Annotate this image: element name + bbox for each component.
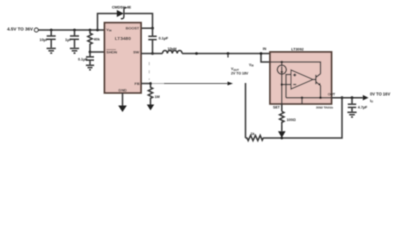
node out junction [341, 96, 344, 99]
op-amp A1 [291, 70, 313, 89]
node set chain junction [281, 83, 284, 86]
svg-text:4.7µF: 4.7µF [358, 105, 368, 109]
wire set bottom run [265, 98, 343, 138]
svg-text:VIN: VIN [249, 63, 254, 68]
svg-text:LT3480: LT3480 [115, 36, 132, 42]
capacitor C2 1uF [65, 30, 79, 48]
wire VIN rail [38, 29, 104, 31]
resistor R2 1M [148, 84, 159, 103]
svg-text:10µF: 10µF [40, 38, 49, 42]
svg-text:1M: 1M [155, 95, 160, 99]
node SW junction [151, 52, 154, 55]
ground C5 [347, 112, 356, 117]
node junction C5 [351, 96, 354, 99]
svg-text:CMDSH-4E: CMDSH-4E [112, 5, 132, 9]
node junction emitter [319, 96, 322, 99]
wire BOOST pin [141, 27, 153, 29]
input terminal [34, 28, 38, 32]
capacitor C1 10uF [40, 30, 56, 48]
wire boost diode branch up [98, 14, 118, 31]
wire arrow on FB line [228, 82, 234, 86]
wire output rail [182, 53, 270, 55]
wire ghost artifact [148, 62, 150, 80]
svg-text:SW: SW [133, 51, 140, 55]
svg-text:10µH: 10µH [168, 47, 177, 51]
node FB divider junction [149, 82, 152, 85]
capacitor C3 0.1uF [78, 52, 94, 65]
svg-text:1µF: 1µF [65, 38, 72, 42]
ground C1 [47, 48, 56, 53]
node junction C1 [50, 29, 53, 32]
svg-text:40k: 40k [94, 38, 101, 42]
current source I1 [277, 62, 286, 104]
wire SW [141, 53, 163, 55]
transistor Q1 [313, 74, 321, 98]
svg-text:0V TO 16V: 0V TO 16V [370, 91, 390, 96]
resistor R1 40k [88, 30, 101, 52]
svg-text:100Ω: 100Ω [287, 118, 296, 122]
svg-text:LT3092: LT3092 [291, 48, 303, 52]
node junction rail 1 [195, 52, 198, 55]
inductor L1 10uH [163, 47, 183, 54]
svg-text:0.1µF: 0.1µF [159, 36, 169, 40]
wire FB [141, 83, 151, 85]
wire SET arrow to bottom run [278, 125, 286, 138]
resistor R4 100 ohm SET [280, 104, 296, 125]
node junction boost diode branch [96, 29, 99, 32]
svg-text:4.5V TO 36V: 4.5V TO 36V [7, 27, 33, 32]
node junction C2 [73, 29, 76, 32]
capacitor C4 0.1uF boost [148, 28, 169, 53]
wire stub to bottom edge [301, 98, 303, 104]
diode D1 CMDSH-4E [112, 5, 132, 18]
ground C2 [70, 48, 79, 53]
output arrow terminal [363, 95, 369, 100]
capacitor C5 4.7uF [348, 98, 368, 112]
ground GND pin arrow [118, 93, 127, 112]
svg-text:2V TO 18V: 2V TO 18V [231, 72, 249, 76]
wire FB down to set node [245, 83, 247, 138]
wire branch into LT3092 [261, 54, 282, 63]
node SHDN junction [89, 51, 92, 54]
wire SHDN [90, 51, 105, 53]
node rail corner junction [260, 52, 263, 55]
node junction bottom 1 [301, 96, 304, 99]
svg-text:VIN: VIN [106, 28, 111, 33]
ground C3 [86, 65, 94, 70]
node BOOST junction [151, 27, 154, 30]
svg-text:IN: IN [263, 47, 267, 51]
node junction rail 2 with leader [227, 52, 230, 55]
resistor R3 10k [246, 132, 265, 141]
node set bottom junction [280, 137, 283, 140]
wire internal in rail [270, 62, 321, 74]
svg-text:0.1µF: 0.1µF [78, 57, 88, 61]
ground R2 arrow [150, 102, 152, 105]
svg-text:BOOST: BOOST [126, 27, 140, 31]
svg-text:SET: SET [273, 106, 281, 110]
wire OUT [332, 97, 363, 99]
op IC U1 regulator box [105, 23, 142, 93]
op IC U2 LT3092 box [270, 52, 332, 104]
svg-text:GND: GND [118, 89, 127, 93]
svg-text:OUT: OUT [328, 93, 336, 97]
wire diode to boost [124, 14, 153, 29]
node junction R1 [89, 29, 92, 32]
svg-text:3092 TA01b: 3092 TA01b [316, 106, 333, 110]
wire out bottom line [286, 97, 332, 99]
svg-text:FB: FB [135, 82, 140, 86]
wire feedback loop [286, 75, 291, 98]
svg-text:SHDN: SHDN [106, 51, 117, 55]
wire to minus input [282, 84, 291, 86]
node internal junction [281, 61, 284, 64]
svg-text:IO: IO [370, 99, 373, 104]
